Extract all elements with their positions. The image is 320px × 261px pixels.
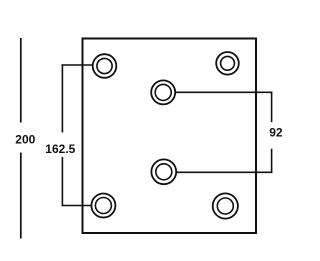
- hole H5 bottom-left inner: [95, 198, 111, 214]
- dimension 162.5 vertical upper segment: [61, 64, 63, 132]
- hole H1 top-left inner: [97, 58, 112, 73]
- dimension 92 top horizontal wire: [175, 91, 272, 93]
- dimension 92 vertical lower segment: [271, 149, 273, 173]
- dimension 162.5 bottom horizontal wire: [62, 205, 92, 207]
- hole H3 mid-upper inner: [155, 84, 171, 100]
- hole H4 mid-lower inner: [156, 164, 172, 180]
- hole H1 top-left outer: [93, 54, 117, 78]
- dimension 92 bottom horizontal wire: [176, 171, 272, 173]
- hole H2 top-right inner: [221, 56, 235, 70]
- dimension 92 vertical upper segment: [271, 92, 273, 123]
- hole H3 mid-upper outer: [151, 80, 175, 104]
- hole H6 bottom-right outer: [213, 193, 238, 218]
- dimension 162.5 top horizontal wire: [62, 64, 93, 66]
- hole H2 top-right outer: [216, 52, 239, 75]
- plate outline: [83, 39, 257, 234]
- dimension 162.5 vertical lower segment: [61, 157, 63, 206]
- svg-text:200: 200: [15, 133, 35, 147]
- dimension 200 line lower segment: [20, 153, 22, 239]
- hole H6 bottom-right inner: [217, 198, 233, 214]
- hole H4 mid-lower outer: [151, 159, 176, 184]
- hole H5 bottom-left outer: [91, 194, 115, 218]
- svg-text:162.5: 162.5: [45, 142, 75, 156]
- svg-text:92: 92: [269, 126, 283, 140]
- dimension 200 line upper segment: [20, 38, 22, 123]
